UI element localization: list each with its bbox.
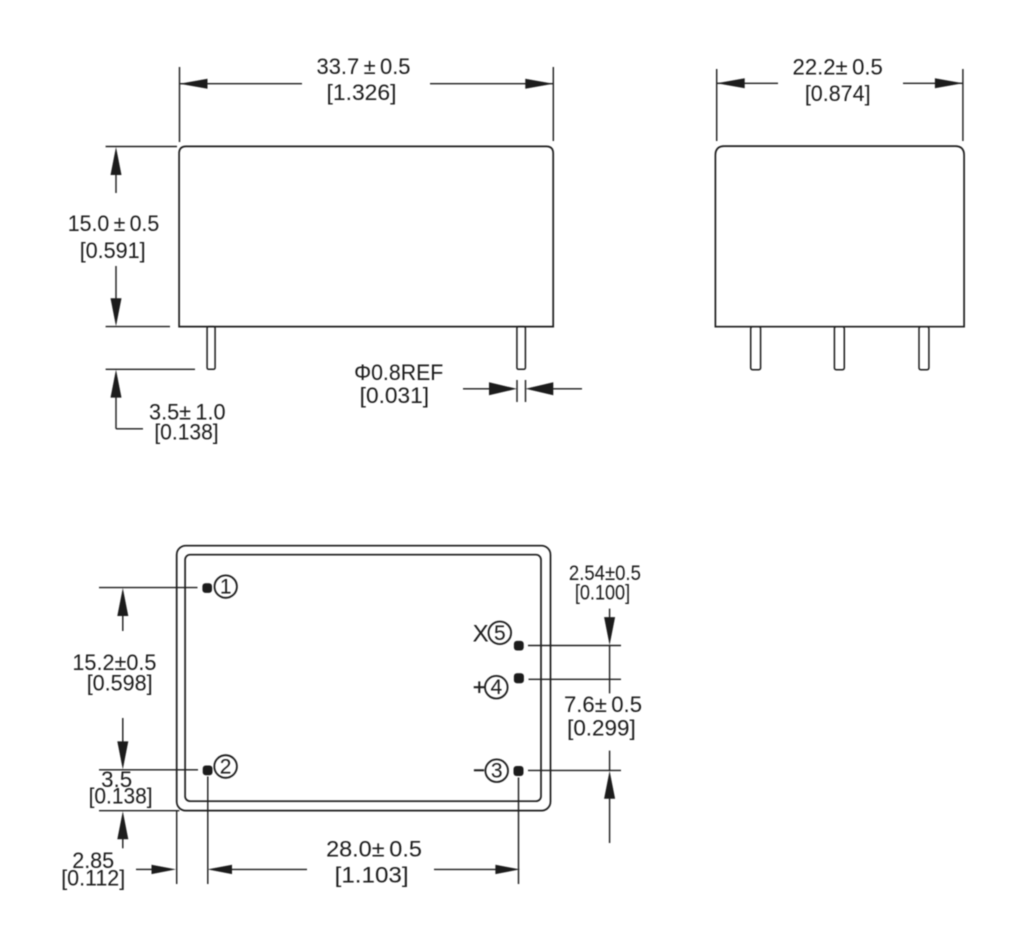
dim 3.5 bottom arrow up [117, 811, 128, 848]
dim pin-diameter tick left [516, 380, 518, 402]
svg-text:28.0± 0.5: 28.0± 0.5 [326, 837, 422, 862]
pin 3 column extension [518, 778, 520, 885]
dim 7.6 arrow up below pin 3 row [604, 771, 615, 843]
bottom view left edge extension [176, 811, 178, 884]
dim 33.7 extension line right [552, 67, 554, 141]
label circle pin 4 [485, 676, 508, 699]
dim 22.2 dimension line left segment with arrow [717, 78, 778, 88]
front view right pin [517, 327, 526, 370]
svg-text:[0.100]: [0.100] [575, 582, 630, 605]
pin 2 row line [99, 769, 198, 771]
dim 2.85 line and arrow [136, 865, 176, 874]
bottom view outer outline [177, 546, 551, 811]
svg-text:[1.326]: [1.326] [327, 80, 397, 105]
dim 28.0 left arrow and line [208, 865, 308, 874]
dim 3.5 bottom tick [99, 810, 179, 812]
svg-text:7.6± 0.5: 7.6± 0.5 [564, 692, 642, 717]
side view pin 3 [919, 327, 929, 370]
dim 3.5 pin-bottom tick [106, 368, 195, 370]
front view left pin [207, 327, 215, 370]
dim 33.7 dimension line left segment [180, 83, 303, 85]
dim 2.54-7.6 connector [609, 646, 611, 680]
svg-text:[0.138]: [0.138] [154, 420, 218, 445]
svg-text:Φ0.8REF: Φ0.8REF [354, 360, 443, 385]
svg-text:5: 5 [494, 622, 506, 645]
pin 5 row line [528, 645, 621, 647]
pin 4 row line [529, 678, 622, 680]
svg-text:33.7 ± 0.5: 33.7 ± 0.5 [317, 54, 411, 79]
dim 22.2 extension line right [962, 69, 964, 141]
svg-text:1: 1 [220, 576, 232, 599]
dim 15.2 arrow up [117, 588, 128, 631]
svg-text:[0.874]: [0.874] [805, 81, 871, 106]
svg-text:[0.598]: [0.598] [87, 671, 153, 696]
pad dot pin 2 [203, 766, 213, 776]
dim pin-diameter left line and arrow [463, 382, 517, 395]
dim 22.2 dimension line right segment with arrow [903, 78, 963, 88]
side view pin 1 [751, 327, 761, 370]
pin 1 row line [99, 587, 198, 589]
label circle pin 1 [215, 575, 237, 597]
dim 3.5 arrow up with leader [111, 370, 144, 429]
pin 1-2 column extension [207, 777, 209, 885]
bottom view inner outline [185, 555, 541, 802]
label circle pin 2 [214, 755, 237, 778]
dim 15.0 bottom tick [106, 326, 170, 328]
svg-text:[0.299]: [0.299] [567, 716, 636, 741]
side view pin 2 [834, 327, 844, 370]
dim 2.54 arrow down [604, 609, 615, 646]
svg-text:[1.103]: [1.103] [335, 863, 409, 888]
pad dot pin 5 [514, 641, 524, 651]
svg-text:3: 3 [491, 760, 503, 783]
dim 15.0 arrow up [111, 147, 122, 193]
front view body [179, 146, 553, 326]
dim pin-diameter tick right [525, 380, 527, 402]
dim pin-diameter right line and arrow [526, 382, 583, 395]
label minus of pin 3 [474, 769, 484, 771]
dim 7.6 upper segment [609, 679, 611, 693]
svg-text:[0.138]: [0.138] [89, 784, 153, 809]
pad dot pin 3 [514, 766, 524, 776]
dim 15.2 arrow down [117, 718, 128, 769]
label circle pin 3 [485, 759, 508, 782]
svg-text:[0.591]: [0.591] [80, 238, 146, 263]
dim 33.7 dimension line right segment [430, 83, 553, 85]
side view body [715, 146, 964, 327]
svg-text:15.0 ± 0.5: 15.0 ± 0.5 [68, 211, 160, 236]
dim 7.6 lower segment [609, 751, 611, 771]
pad dot pin 4 [514, 673, 524, 683]
dim 33.7 extension line left [179, 67, 181, 142]
dim 28.0 right line and arrow [434, 865, 520, 874]
dim 33.7 arrow left [180, 79, 208, 89]
pad dot pin 1 [202, 583, 212, 593]
dim 22.2 extension line left [716, 69, 718, 141]
svg-text:[0.031]: [0.031] [360, 383, 429, 408]
svg-text:4: 4 [490, 676, 502, 699]
label plus of pin 4 [474, 681, 485, 693]
dim 15.0 arrow down [111, 266, 122, 326]
svg-text:[0.112]: [0.112] [61, 866, 125, 891]
dim 15.0 top tick [106, 146, 177, 148]
dim 33.7 arrow right [525, 79, 553, 89]
label circle pin 5 [489, 622, 512, 645]
svg-text:22.2± 0.5: 22.2± 0.5 [793, 55, 883, 80]
pin 3 row line [528, 769, 621, 771]
svg-text:X: X [473, 620, 489, 647]
svg-text:2: 2 [220, 756, 232, 779]
